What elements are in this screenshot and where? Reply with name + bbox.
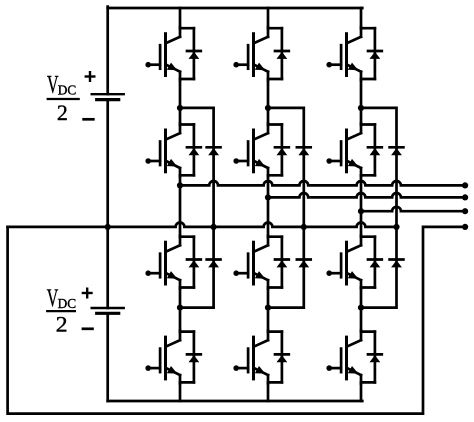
svg-text:V: V xyxy=(47,285,59,312)
svg-text:2: 2 xyxy=(56,312,68,337)
svg-text:2: 2 xyxy=(57,100,68,125)
svg-text:DC: DC xyxy=(58,297,77,312)
svg-text:DC: DC xyxy=(58,84,77,99)
svg-text:V: V xyxy=(47,72,59,99)
